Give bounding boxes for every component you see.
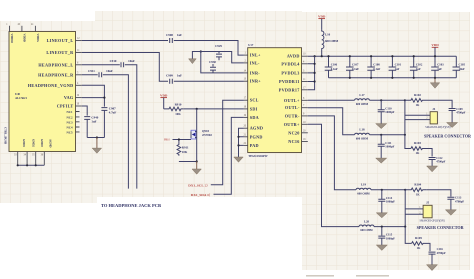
svg-text:C908: C908 (166, 33, 173, 37)
svg-text:VDDA: VDDA (36, 34, 40, 43)
svg-text:VDDIO: VDDIO (10, 34, 14, 44)
connector J5 (419, 200, 444, 222)
capacitor C106 (325, 55, 338, 78)
U40 right pin CPFILT pin 18 (57, 103, 82, 109)
node Q1 junction (404, 134, 406, 136)
U40 top pin VDDD (18, 23, 27, 42)
svg-text:R105: R105 (415, 236, 422, 240)
svg-text:PVDDR17: PVDDR17 (279, 87, 300, 92)
wire OUTR+ to L20 (308, 124, 359, 226)
svg-text:C930: C930 (209, 60, 216, 64)
svg-text:SPEAKER CONNECTOR: SPEAKER CONNECTOR (424, 133, 472, 138)
svg-text:R104: R104 (414, 183, 421, 187)
U17 right pin NC16 pin 16 (288, 138, 308, 144)
svg-text:R910: R910 (175, 102, 182, 106)
node SDI pull-up junction (196, 108, 198, 110)
svg-text:0.1uF: 0.1uF (352, 67, 359, 71)
svg-text:PVDDL4: PVDDL4 (281, 61, 300, 66)
svg-text:1uF: 1uF (416, 67, 421, 71)
power VDD at decoupling bank (431, 43, 439, 56)
svg-text:VDD: VDD (160, 94, 168, 98)
U40 top pin VDDIO (pin stub + vertical label) (6, 23, 14, 44)
node PGND junction (237, 136, 239, 138)
svg-text:SMAW200-2P(LF)(SN): SMAW200-2P(LF)(SN) (420, 220, 445, 223)
wire to J4 pin 1 (405, 114, 430, 116)
wire P2 vertical to Q2 (404, 190, 406, 227)
wire SDI node down to Q910 drain (196, 109, 198, 129)
node Q2 junction (404, 226, 406, 228)
wire C909 to INR+ pin (175, 80, 244, 82)
capacitor C105 (453, 56, 466, 78)
wire R911 to source tie (179, 161, 197, 163)
svg-text:1uF: 1uF (91, 120, 96, 124)
wire R104 to C113 (427, 190, 451, 197)
svg-text:HEADPHONE_L: HEADPHONE_L (38, 62, 73, 67)
wire Q2 down to R105 (405, 227, 411, 244)
svg-text:NC16: NC16 (288, 139, 299, 144)
svg-text:PVDDR11: PVDDR11 (279, 79, 300, 84)
U40 NC pins NC1-NC5 (66, 110, 79, 134)
svg-text:PGND: PGND (250, 134, 263, 139)
svg-text:NC20: NC20 (288, 130, 299, 135)
wire node down to INR- line (201, 52, 244, 73)
wire L20 to Q2 (374, 226, 405, 228)
U17 right pin OUTR- pin 9 (285, 112, 308, 118)
U40 right pin VAG pin 19 (64, 94, 82, 100)
svg-text:PAD: PAD (250, 143, 259, 148)
svg-text:1000pF: 1000pF (386, 237, 395, 241)
capacitor C911 (88, 69, 113, 77)
capacitor C114 1000pF (378, 190, 395, 213)
U17 right pin PVDDR11 pin 11 (279, 78, 308, 84)
U40 right pin LINEOUT_L pin 12 (47, 37, 82, 43)
ground under C115 (376, 245, 387, 250)
svg-text:C910: C910 (110, 59, 117, 63)
svg-text:C911: C911 (88, 69, 95, 73)
wire SCL from port to pin (211, 100, 244, 185)
svg-text:NC2: NC2 (66, 115, 72, 119)
U17 right pin NC20 pin 20 (288, 129, 308, 135)
capacitor C930 (209, 60, 216, 73)
codec IC U40 body (9, 32, 76, 152)
svg-text:SDA: SDA (250, 115, 259, 120)
svg-text:C929: C929 (215, 44, 222, 48)
ground under C116 (427, 265, 438, 271)
svg-text:10uF: 10uF (459, 67, 465, 71)
resistor R103 (411, 141, 432, 156)
svg-text:OUTL-: OUTL- (285, 105, 300, 110)
wire to J5 pin 1 (405, 208, 423, 210)
svg-text:TO HEADPHONE JACK PCB: TO HEADPHONE JACK PCB (101, 203, 161, 208)
svg-text:VDD: VDD (318, 15, 326, 19)
node rail-L10 junction (321, 55, 323, 57)
svg-text:DX1_SDA: DX1_SDA (191, 193, 207, 197)
svg-text:NC5: NC5 (66, 130, 72, 134)
svg-text:HEADPHONE_VGND: HEADPHONE_VGND (28, 83, 74, 88)
svg-text:4700pF: 4700pF (455, 199, 464, 203)
transistor Q910 2N7002 (191, 129, 212, 162)
capacitor C112 4700pF (429, 156, 446, 166)
svg-text:VDDD: VDDD (23, 34, 27, 42)
svg-text:R102: R102 (414, 93, 421, 97)
U40 top pin VDDA (31, 23, 40, 43)
capacitor C910 (110, 59, 135, 67)
node P1 junction (404, 99, 406, 101)
svg-text:1uF: 1uF (177, 33, 182, 37)
svg-text:600 OHM: 600 OHM (357, 191, 370, 195)
svg-text:OUTL+: OUTL+ (284, 98, 300, 103)
svg-text:2N7002: 2N7002 (202, 133, 212, 137)
capacitor C116 4700pF (429, 247, 446, 265)
wire C910 down to headphone jack (125, 65, 137, 189)
svg-text:AGND: AGND (49, 139, 53, 148)
svg-text:SCL: SCL (250, 98, 259, 103)
ground under C112 (427, 166, 438, 172)
wire LINEOUT_L to C908 (82, 40, 168, 42)
svg-text:4700pF: 4700pF (437, 251, 446, 255)
capacitor C111 1000pF (378, 135, 395, 158)
svg-text:10uF: 10uF (128, 59, 135, 63)
node source junction (196, 160, 198, 162)
wire node to INL- pin (201, 52, 244, 63)
wire to J4 pin 2 (405, 119, 430, 121)
inductor L10 600 OHM (322, 30, 339, 57)
U17 right pin PVDDR17 pin 17 (279, 86, 308, 92)
svg-text:L10: L10 (325, 33, 331, 37)
resistor R105 (412, 236, 430, 251)
U17 right pin PVDDL3 pin 3 (281, 69, 307, 75)
node input ground junction (200, 50, 202, 52)
ground at input network (189, 59, 197, 64)
U17 right pin OUTR+ pin 10 (284, 121, 308, 127)
capacitor C109 4700pF (449, 107, 466, 123)
port PB10 to gate (164, 139, 191, 142)
wire AVDD top rail (308, 55, 457, 57)
capacitor C110 1000pF (378, 100, 395, 123)
capacitor C113 4700pF (447, 196, 464, 210)
U17 right pin OUTL+ pin 8 (284, 97, 308, 103)
svg-text:GND1: GND1 (22, 139, 26, 147)
svg-text:CTRL_BUSB: CTRL_BUSB (4, 127, 8, 144)
wire PVDD bus (308, 56, 315, 90)
inductor L19 600 OHM (356, 183, 371, 196)
svg-text:LINEOUT_L: LINEOUT_L (47, 38, 74, 43)
ground under C110 (376, 124, 387, 129)
svg-text:PB10: PB10 (164, 139, 170, 142)
resistor R910 10K (164, 102, 184, 116)
U17 left pin PGND pin 21 (244, 133, 263, 139)
svg-text:AVDD: AVDD (287, 54, 300, 59)
svg-text:LINEOUT_R: LINEOUT_R (46, 50, 74, 55)
node PVDDL3 junction (314, 72, 316, 74)
wire HEADPHONE_VGND join VAG (82, 85, 105, 97)
svg-text:600 OHM: 600 OHM (356, 102, 369, 106)
amplifier IC U17 body (248, 43, 302, 158)
U17 right pin AVDD pin 10 (287, 53, 308, 59)
svg-text:SDI: SDI (250, 106, 258, 111)
resistor R102 (405, 93, 427, 107)
svg-text:1000pF: 1000pF (385, 110, 394, 114)
wire L17 to node (370, 99, 405, 101)
U17 right pin OUTL- pin 7 (285, 104, 308, 110)
U40 right pin HEADPHONE_VGND pin 4 (28, 82, 82, 88)
svg-text:1000pF: 1000pF (385, 145, 394, 149)
svg-text:0.1uF: 0.1uF (331, 67, 338, 71)
svg-text:VDD: VDD (431, 43, 439, 47)
wire cap common tie (87, 137, 104, 139)
capacitor C907 (101, 107, 116, 138)
capacitor C909 (166, 74, 182, 84)
svg-text:0.1uF: 0.1uF (373, 67, 380, 71)
U17 left pin AGND pin 20 (244, 125, 264, 131)
svg-text:DX1_SCL: DX1_SCL (188, 183, 204, 187)
capacitor C107 (346, 55, 359, 79)
svg-text:GND2: GND2 (31, 139, 35, 147)
svg-text:HEADPHONE_R: HEADPHONE_R (38, 72, 74, 77)
capacitor C101 (389, 55, 402, 79)
svg-text:INR+: INR+ (250, 79, 262, 84)
svg-text:ALC5621: ALC5621 (15, 96, 27, 100)
ground at U17 AGND (234, 157, 243, 162)
svg-text:NC1: NC1 (66, 110, 72, 114)
wire SDA from port to pin (214, 117, 244, 194)
svg-text:L18: L18 (359, 128, 365, 132)
svg-text:1uF: 1uF (395, 67, 400, 71)
wire AGND PGND PAD tie to ground (239, 128, 244, 157)
wire C908 to INL+ pin (175, 41, 244, 56)
svg-text:INL-: INL- (250, 60, 260, 65)
svg-text:CPFILT: CPFILT (57, 104, 74, 109)
svg-text:TPA3113D2PW: TPA3113D2PW (248, 154, 267, 158)
node PVDDR11 junction (314, 80, 316, 82)
wire ground tee for INL- (192, 52, 200, 59)
U40 bottom GND pins with tie bus (14, 139, 53, 166)
inductor L18 600 OHM (355, 128, 370, 141)
svg-text:NC3: NC3 (66, 120, 72, 124)
wire HEADPHONE_L to C910 (82, 64, 120, 66)
svg-text:1000pF: 1000pF (386, 200, 395, 204)
wire to J5 pin 2 (405, 213, 423, 215)
svg-text:PVDDL3: PVDDL3 (281, 70, 299, 75)
capacitor C103 (431, 55, 444, 79)
U17 left pin INR+ pin 13 (244, 78, 262, 84)
U17 left pin INL- pin 2 (244, 59, 260, 65)
ground under C114 (376, 213, 387, 218)
svg-text:AGND: AGND (250, 126, 264, 131)
ground under C113 (445, 210, 456, 215)
capacitor C929 (215, 44, 222, 61)
wire LINEOUT_R down to C909 (82, 53, 168, 82)
svg-text:L19: L19 (361, 183, 367, 187)
U40 right pin HEADPHONE_R pin 5 (38, 71, 82, 77)
svg-text:4700pF: 4700pF (456, 111, 465, 115)
U17 left pin SDA pin 19 (244, 114, 259, 120)
node L20 output junction (381, 226, 383, 228)
power VDD main rail (318, 15, 326, 30)
svg-text:1uF: 1uF (437, 67, 442, 71)
port DX1_SDA (191, 192, 211, 197)
resistor R911 10K pulldown (177, 138, 189, 155)
node PAD junction (237, 144, 239, 146)
svg-text:1uF: 1uF (177, 74, 182, 78)
capacitor C115 1000pF (378, 227, 395, 245)
node L19 output junction (381, 189, 383, 191)
svg-text:L20: L20 (364, 219, 370, 223)
svg-text:GND3: GND3 (40, 139, 44, 147)
wire R102 to C109 (427, 100, 453, 108)
U40 right pin HEADPHONE_L pin 6 (38, 61, 81, 67)
connector J4 (425, 107, 450, 129)
svg-text:4700pF: 4700pF (436, 160, 445, 164)
node L17 output junction (380, 99, 382, 101)
U17 left pin SDI pin 18 (244, 105, 258, 111)
wire R910 to SDI pin (184, 108, 244, 110)
ground under C111 (376, 158, 387, 163)
U17 left pin INR- pin 14 (244, 69, 261, 75)
U17 left pin PAD pin 22 (244, 142, 259, 148)
wire L19 to P2 (371, 189, 405, 191)
wire OUTL- to L18 (308, 108, 355, 135)
svg-text:VAG: VAG (64, 95, 74, 100)
wire HEADPHONE_R to C911 (82, 74, 98, 76)
svg-text:INL+: INL+ (250, 53, 261, 58)
port DX1_SCL (188, 182, 208, 187)
svg-text:600 OHM: 600 OHM (360, 228, 373, 232)
wire Q1 down to R103 (405, 135, 411, 149)
power VDD for SDI pull-up (160, 94, 168, 109)
svg-text:NC4: NC4 (66, 126, 72, 130)
ground at decoupling bank (430, 78, 439, 88)
svg-text:INR-: INR- (250, 70, 261, 75)
svg-text:SPEAKER CONNECTOR: SPEAKER CONNECTOR (417, 225, 465, 230)
svg-text:U17: U17 (248, 43, 254, 47)
svg-text:600 OHM: 600 OHM (356, 136, 369, 140)
svg-text:SMAW200-2P(LF)(SN): SMAW200-2P(LF)(SN) (425, 126, 450, 129)
wire L18 to Q1 (370, 134, 405, 136)
wire OUTR- to L19 (308, 116, 356, 190)
capacitor C908 (166, 33, 182, 43)
cropped text bottom right (306, 275, 389, 277)
U17 left pin INL+ pin 1 (244, 52, 261, 58)
resistor R104 (405, 183, 427, 197)
wire OUTL+ to L17 (308, 99, 355, 101)
svg-text:10K: 10K (182, 150, 188, 154)
inductor L20 600 OHM (359, 219, 374, 232)
wire C911 down to headphone jack (103, 75, 129, 189)
node rail-bus junction (314, 55, 316, 57)
inductor L17 600 OHM (355, 93, 370, 106)
svg-text:OUTR+: OUTR+ (284, 122, 300, 127)
node VAG junction (103, 97, 105, 99)
node L18 output junction (380, 134, 382, 136)
capacitor C108 (367, 55, 380, 79)
U17 left pin SCL pin 17 (244, 97, 259, 103)
ground under VAG caps (92, 138, 101, 154)
svg-text:600 OHM: 600 OHM (325, 39, 338, 43)
wire CPFILT to C940 (82, 106, 87, 116)
svg-text:10uF: 10uF (106, 69, 113, 73)
U17 right pin PVDDL4 pin 4 (281, 60, 307, 66)
U40 right pin LINEOUT_R pin 11 (46, 49, 81, 55)
wire P1 vertical to Q1 (404, 100, 406, 135)
node PVDDL4 junction (314, 63, 316, 65)
svg-text:R103: R103 (414, 141, 421, 145)
svg-text:OUTR-: OUTR- (285, 113, 300, 118)
svg-text:4.7uF: 4.7uF (109, 111, 117, 115)
wire decoupling bottom rail (329, 77, 457, 79)
ground under C109 (447, 123, 458, 128)
svg-text:L17: L17 (359, 93, 365, 97)
node P2 junction (404, 189, 406, 191)
node tie junction (96, 136, 98, 138)
ground at Q910 source (192, 162, 201, 175)
svg-text:C909: C909 (166, 74, 173, 78)
svg-text:10K: 10K (175, 112, 181, 116)
wire VAG to C907 (82, 98, 105, 107)
capacitor C102 (410, 55, 423, 79)
capacitor C940 (84, 116, 99, 138)
